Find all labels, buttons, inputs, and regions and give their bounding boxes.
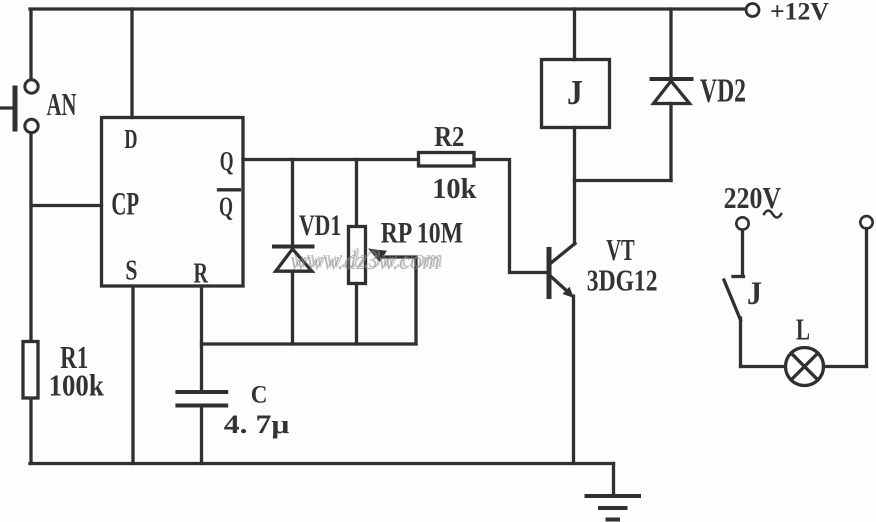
diode VD1 [274, 160, 313, 345]
svg-text:VD2: VD2 [700, 72, 746, 109]
svg-text:J: J [567, 73, 583, 112]
label AC tilde [764, 211, 781, 218]
svg-text:4. 7μ: 4. 7μ [224, 410, 290, 439]
svg-text:www.dz3w.com: www.dz3w.com [293, 244, 443, 273]
svg-text:10k: 10k [432, 173, 477, 205]
wire R2 to base [474, 160, 548, 273]
svg-text:AN: AN [47, 86, 77, 122]
svg-text:VD1: VD1 [299, 210, 341, 242]
svg-text:Q: Q [219, 190, 233, 221]
pin label Qbar [219, 190, 240, 222]
wire ground rail [30, 462, 614, 465]
wire D input [130, 9, 133, 118]
resistor R1 [23, 342, 38, 399]
capacitor C [177, 392, 226, 464]
svg-text:CP: CP [111, 187, 139, 223]
svg-text:+12V: +12V [770, 0, 829, 25]
wire VD2 anode to collector [575, 179, 672, 182]
wire reset net [202, 342, 417, 345]
relay J box [542, 60, 610, 128]
svg-text:C: C [251, 380, 268, 408]
lamp L [741, 229, 867, 386]
flip-flop U1 box [102, 118, 244, 287]
svg-text:R2: R2 [434, 121, 464, 153]
wire left rail [29, 133, 32, 464]
wire Q output [243, 158, 419, 161]
svg-text:L: L [796, 313, 810, 347]
wire R down [200, 286, 203, 390]
watermark [290, 244, 443, 275]
wire CP input [31, 204, 102, 207]
svg-text:3DG12: 3DG12 [587, 263, 658, 298]
resistor R2 [419, 153, 475, 167]
svg-text:J: J [747, 276, 762, 312]
transistor VT [547, 244, 576, 300]
svg-text:100k: 100k [49, 368, 105, 403]
relay contact J [724, 230, 744, 367]
wire emitter down [572, 296, 575, 464]
diode VD2 [652, 9, 692, 181]
svg-text:220V: 220V [724, 180, 782, 215]
wire J to rail [573, 9, 576, 60]
wire S down [131, 286, 134, 464]
wire collector to J [573, 128, 576, 244]
svg-text:D: D [124, 124, 137, 154]
wire top +12V rail [30, 9, 746, 80]
terminal AC right [860, 216, 872, 228]
potentiometer RP [349, 160, 417, 345]
svg-text:Q: Q [220, 145, 234, 176]
svg-text:S: S [125, 256, 137, 287]
terminal AC left [736, 217, 748, 229]
terminal +12V [746, 4, 759, 17]
pushbutton AN [1, 80, 38, 133]
ground [587, 464, 640, 520]
